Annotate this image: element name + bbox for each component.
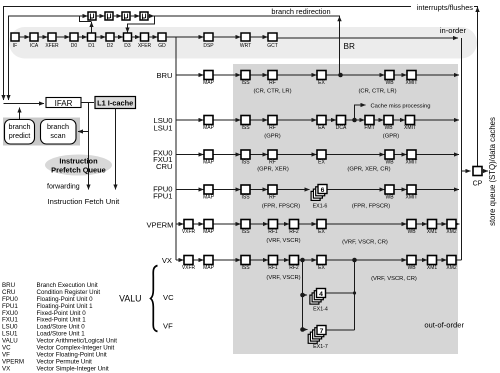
svg-text:scan: scan — [50, 131, 65, 140]
svg-text:Instruction: Instruction — [59, 157, 98, 166]
VALU grouping brace — [151, 266, 158, 332]
svg-text:VF: VF — [163, 322, 173, 331]
junction VC tap — [300, 293, 305, 298]
wire to cache miss processing — [355, 105, 366, 120]
wire into branch scan — [78, 131, 89, 133]
svg-text:Instruction Fetch Unit: Instruction Fetch Unit — [48, 197, 121, 206]
wire FPU — [394, 189, 407, 191]
svg-text:store queue (STQ)/data caches: store queue (STQ)/data caches — [488, 117, 497, 226]
svg-text:BRU: BRU — [156, 71, 172, 80]
wire EX1-7 result to merge bus — [326, 329, 355, 331]
wire FXU — [326, 154, 385, 156]
wire D3 to XFER — [132, 36, 141, 38]
pipeline stage GD — [158, 33, 166, 41]
wire merge bus for VC/VF results — [354, 260, 356, 330]
VPERM RF1 stage — [269, 220, 278, 229]
svg-text:FPU1: FPU1 — [2, 303, 18, 310]
pipeline stage D0 — [70, 33, 78, 41]
junction VX result merge — [352, 258, 357, 263]
wire EX1-4 result to merge bus — [326, 292, 355, 294]
svg-text:VXFR: VXFR — [182, 229, 196, 235]
branch predict box — [5, 120, 35, 145]
wire VPERM — [299, 223, 317, 225]
wire μ2 to μ3 — [113, 15, 122, 17]
in-order pipeline background (stadium) — [9, 27, 477, 59]
L1 I-cache box — [95, 97, 136, 109]
svg-text:predict: predict — [9, 131, 31, 140]
VX WB stage — [407, 256, 416, 265]
wire VX — [176, 259, 184, 261]
LSU DCA stage — [337, 116, 346, 125]
wire into IFAR — [4, 103, 45, 105]
branch unit container background — [3, 118, 80, 146]
wire BRU — [277, 74, 317, 76]
wire D0 to D1 — [78, 36, 87, 38]
FXU RF stage — [268, 150, 277, 159]
wire down from L1 I-cache — [115, 109, 117, 190]
junction VF tap — [300, 327, 305, 332]
svg-text:ISS: ISS — [241, 229, 250, 235]
LSU FMT stage — [365, 116, 374, 125]
svg-text:BR: BR — [344, 42, 355, 51]
svg-text:FPU1: FPU1 — [153, 191, 172, 200]
wire IF to ICA — [19, 36, 30, 38]
svg-text:Fixed-Point Unit 1: Fixed-Point Unit 1 — [37, 317, 87, 324]
wire LSU — [393, 119, 405, 121]
svg-text:(FPR, FPSCR): (FPR, FPSCR) — [262, 204, 300, 210]
VX ISS stage — [241, 256, 250, 265]
wire: interrupts/flushes feedback from CP to IFAR — [4, 7, 478, 167]
wire VX — [299, 259, 317, 261]
wire FPU — [327, 189, 385, 191]
svg-text:DSP: DSP — [203, 43, 214, 49]
pipeline stage D2 — [106, 33, 114, 41]
svg-text:MAP: MAP — [203, 125, 215, 131]
svg-text:XMIT: XMIT — [406, 195, 418, 201]
wire branch predict up to IFAR line — [19, 108, 21, 120]
wire XFER to D0 — [56, 36, 70, 38]
wire BRU — [176, 74, 204, 76]
pipeline stage ICA — [30, 33, 38, 41]
wire BRU — [326, 74, 385, 76]
VC execution stack EX1-4 — [310, 295, 319, 304]
wire VX — [326, 259, 407, 261]
pipeline stage XFER — [141, 33, 149, 41]
svg-text:RF: RF — [269, 195, 276, 201]
FPU XMIT stage — [407, 185, 416, 194]
wire: branch redirection feedback from BR to IFAR — [9, 16, 340, 100]
svg-text:XFER: XFER — [138, 43, 152, 49]
svg-text:VPERM: VPERM — [146, 220, 173, 229]
svg-text:WB: WB — [407, 229, 416, 235]
wire WRT to GCT — [250, 36, 268, 38]
svg-text:GD: GD — [158, 43, 166, 49]
wire LSU — [374, 119, 384, 121]
svg-text:(VRF, VSCR, CR): (VRF, VSCR, CR) — [371, 276, 417, 282]
IFAR box — [46, 98, 81, 108]
svg-text:ISS: ISS — [241, 265, 250, 271]
svg-text:WB: WB — [407, 265, 416, 271]
VX XM1 stage — [428, 256, 437, 265]
wire VPERM — [437, 223, 447, 225]
wire VX — [213, 259, 241, 261]
wire VPERM — [416, 223, 427, 225]
svg-text:XMIT: XMIT — [406, 160, 418, 166]
svg-text:RF: RF — [269, 160, 276, 166]
svg-text:(GPR): (GPR) — [383, 134, 399, 140]
svg-text:MAP: MAP — [203, 80, 215, 86]
FPU execution stack EX1-6 — [311, 191, 320, 200]
wire IFAR to L1 I-cache — [81, 102, 94, 104]
svg-text:EX1-4: EX1-4 — [313, 307, 328, 313]
pipeline stage IF — [11, 33, 19, 41]
svg-text:ICA: ICA — [30, 43, 39, 49]
out-of-order region background — [233, 64, 458, 354]
svg-text:XM1: XM1 — [427, 265, 438, 271]
junction merge — [353, 291, 356, 294]
VF execution stack EX1-7 — [308, 334, 317, 343]
svg-text:(VRF, VSCR): (VRF, VSCR) — [266, 275, 300, 281]
svg-text:ISS: ISS — [241, 160, 250, 166]
wire VX — [193, 259, 204, 261]
wire FPU — [176, 189, 204, 191]
svg-text:VALU: VALU — [119, 294, 141, 304]
LSU RF stage — [268, 116, 277, 125]
micro-op stage μ4 — [140, 12, 148, 20]
wire DSP to WRT — [213, 36, 241, 38]
svg-text:out-of-order: out-of-order — [424, 321, 464, 330]
svg-text:FXU1: FXU1 — [2, 317, 18, 324]
wire VX — [278, 259, 290, 261]
svg-text:VC: VC — [2, 345, 11, 352]
VPERM ISS stage — [241, 220, 250, 229]
wire LSU — [346, 119, 365, 121]
micro-op stage μ3 — [122, 12, 130, 20]
svg-text:VXFR: VXFR — [182, 265, 196, 271]
BRU EX stage — [317, 71, 326, 80]
svg-text:GCT: GCT — [267, 43, 278, 49]
wire FPU — [277, 189, 310, 191]
wire VPERM — [193, 223, 204, 225]
wire VPERM — [213, 223, 241, 225]
svg-text:D0: D0 — [71, 43, 78, 49]
svg-text:forwarding: forwarding — [47, 184, 80, 191]
wire XFER to GD — [149, 36, 158, 38]
svg-text:D2: D2 — [107, 43, 114, 49]
svg-text:IF: IF — [13, 43, 17, 49]
VX XM2 stage — [447, 256, 456, 265]
svg-text:EX: EX — [318, 80, 325, 86]
FPU ISS stage — [241, 185, 250, 194]
label interrupts/flushes — [411, 2, 474, 12]
wire FXU — [394, 154, 407, 156]
svg-text:XMIT: XMIT — [404, 125, 416, 131]
LSU ISS stage — [241, 116, 250, 125]
svg-text:EA: EA — [318, 125, 325, 131]
svg-text:branch redirection: branch redirection — [271, 7, 330, 16]
wire from μ4 down into D3 — [148, 15, 154, 17]
VX MAP stage — [204, 256, 213, 265]
wire LSU — [415, 119, 460, 121]
arrowhead up at top of BR line — [337, 16, 341, 21]
svg-text:VPERM: VPERM — [2, 358, 24, 365]
svg-text:Vector Complex-Integer Unit: Vector Complex-Integer Unit — [37, 345, 115, 352]
wire LSU — [176, 119, 204, 121]
VX RF1 stage — [269, 256, 278, 265]
pipeline stage XFER — [48, 33, 56, 41]
svg-text:RF1: RF1 — [268, 229, 278, 235]
svg-text:branch: branch — [47, 122, 69, 131]
pipeline stage WRT — [241, 33, 250, 41]
BRU ISS stage — [241, 71, 250, 80]
svg-text:Cache miss processing: Cache miss processing — [371, 103, 431, 109]
svg-text:Condition Register Unit: Condition Register Unit — [37, 289, 101, 296]
LSU WB stage — [384, 116, 393, 125]
wire μ1 to μ2 — [96, 15, 105, 17]
wire VPERM — [250, 223, 268, 225]
svg-text:LSU1: LSU1 — [2, 331, 18, 338]
svg-text:EX: EX — [318, 265, 325, 271]
svg-text:(CR, CTR, LR): (CR, CTR, LR) — [254, 89, 292, 95]
wire LSU — [250, 119, 268, 121]
wire μ3 to μ4 — [130, 15, 140, 17]
wire FPU — [416, 189, 459, 191]
svg-text:FMT: FMT — [364, 125, 374, 131]
wire BRU — [416, 74, 459, 76]
svg-text:ISS: ISS — [241, 125, 250, 131]
svg-text:WB: WB — [385, 80, 394, 86]
svg-text:XM1: XM1 — [427, 229, 438, 235]
svg-text:EX1-7: EX1-7 — [313, 344, 328, 350]
svg-text:interrupts/flushes: interrupts/flushes — [417, 3, 474, 12]
micro-op stage μ1 — [88, 12, 96, 20]
svg-text:(GPR, XER): (GPR, XER) — [257, 166, 289, 172]
svg-text:EX1-6: EX1-6 — [313, 204, 328, 210]
wire FPU — [250, 189, 268, 191]
wire: dispatch bus vertical — [175, 38, 177, 261]
wire into CP — [462, 170, 471, 172]
svg-text:MAP: MAP — [203, 195, 215, 201]
svg-text:Vector Simple-Integer Unit: Vector Simple-Integer Unit — [37, 365, 109, 372]
FXU WB stage — [385, 150, 394, 159]
BRU WB stage — [385, 71, 394, 80]
svg-text:VX: VX — [162, 256, 172, 265]
wire FXU — [213, 154, 241, 156]
svg-text:(GPR, XER, CR): (GPR, XER, CR) — [347, 166, 390, 172]
wire VX — [416, 259, 427, 261]
LSU XMIT stage — [406, 116, 415, 125]
svg-text:MAP: MAP — [203, 265, 215, 271]
VPERM RF2 stage — [290, 220, 299, 229]
BRU MAP stage — [204, 71, 213, 80]
pipeline stage DSP — [204, 33, 213, 41]
VX RF2 stage — [290, 256, 299, 265]
wire GCT to completion line (in-order) — [277, 37, 458, 39]
svg-text:CRU: CRU — [2, 289, 15, 296]
wire LSU — [326, 119, 336, 121]
svg-text:Load/Store Unit 1: Load/Store Unit 1 — [37, 331, 86, 338]
svg-text:WB: WB — [385, 160, 394, 166]
svg-text:Prefetch Queue: Prefetch Queue — [51, 166, 106, 175]
svg-text:MAP: MAP — [203, 160, 215, 166]
VX VXFR stage — [184, 256, 193, 265]
wire from D1 up to microcode row — [91, 22, 93, 33]
LSU MAP stage — [204, 116, 213, 125]
svg-text:RF2: RF2 — [289, 229, 299, 235]
svg-text:7: 7 — [320, 328, 324, 335]
pipeline stage D3 — [124, 33, 132, 41]
pipeline stage GCT — [268, 33, 277, 41]
svg-text:4: 4 — [319, 291, 323, 298]
svg-text:ISS: ISS — [241, 80, 250, 86]
svg-text:D3: D3 — [124, 43, 131, 49]
wire FXU — [176, 154, 204, 156]
wire into EX1-4 — [303, 294, 308, 296]
wire: completion bus vertical — [461, 38, 463, 260]
wire D2 to D3 — [114, 36, 123, 38]
wire FXU — [250, 154, 268, 156]
wire FPU — [213, 189, 241, 191]
svg-text:XM2: XM2 — [446, 265, 457, 271]
VPERM XM1 stage — [428, 220, 437, 229]
wire LSU — [277, 119, 317, 121]
svg-text:D1: D1 — [88, 43, 95, 49]
svg-text:(CR, CTR, LR): (CR, CTR, LR) — [359, 89, 397, 95]
FXU EX stage — [317, 150, 326, 159]
VPERM WB stage — [407, 220, 416, 229]
svg-text:EX: EX — [318, 160, 325, 166]
svg-text:Vector Permute Unit: Vector Permute Unit — [37, 358, 93, 365]
wire VPERM — [176, 223, 184, 225]
svg-text:CP: CP — [473, 181, 483, 188]
wire BRU — [213, 74, 241, 76]
micro-op stage μ2 — [105, 12, 113, 20]
svg-text:LSU1: LSU1 — [154, 123, 173, 132]
FPU MAP stage — [204, 185, 213, 194]
FXU XMIT stage — [407, 150, 416, 159]
wire BRU — [394, 74, 407, 76]
svg-text:XMIT: XMIT — [406, 80, 418, 86]
svg-text:(GPR): (GPR) — [264, 134, 280, 140]
svg-text:ISS: ISS — [241, 195, 250, 201]
junction VX to VC/VF split — [300, 258, 305, 263]
BRU XMIT stage — [407, 71, 416, 80]
wire into EX1-7 — [303, 329, 308, 331]
wire BRU — [250, 74, 268, 76]
svg-text:(VRF, VSCR, CR): (VRF, VSCR, CR) — [342, 240, 388, 246]
svg-text:RF2: RF2 — [289, 265, 299, 271]
svg-text:IFAR: IFAR — [55, 99, 73, 108]
wire ICA to XFER — [38, 36, 48, 38]
FXU MAP stage — [204, 150, 213, 159]
CP box — [473, 167, 482, 176]
LSU EA stage — [317, 116, 326, 125]
wire down to VC/VF units — [302, 260, 304, 330]
Instruction Prefetch Queue ellipse — [45, 155, 112, 176]
pipeline stage D1 — [88, 33, 96, 41]
svg-text:MAP: MAP — [203, 229, 215, 235]
wire down from IFAR/L1 line through prefetch queue — [88, 103, 90, 190]
svg-text:(FPR, FPSCR): (FPR, FPSCR) — [352, 204, 390, 210]
svg-text:RF: RF — [269, 125, 276, 131]
svg-text:VX: VX — [2, 365, 10, 372]
svg-text:XFER: XFER — [45, 43, 59, 49]
svg-text:EX: EX — [318, 229, 325, 235]
VX EX stage — [317, 256, 326, 265]
wire LSU — [213, 119, 241, 121]
svg-text:RF: RF — [269, 80, 276, 86]
wire FXU — [277, 154, 317, 156]
svg-text:WB: WB — [384, 125, 393, 131]
svg-text:Floating-Point Unit 1: Floating-Point Unit 1 — [37, 303, 94, 310]
FPU WB stage — [385, 185, 394, 194]
svg-text:in-order: in-order — [440, 26, 467, 35]
BRU RF stage — [268, 71, 277, 80]
junction cache miss tap — [352, 118, 357, 123]
svg-text:WB: WB — [385, 195, 394, 201]
wire VPERM — [278, 223, 290, 225]
svg-text:6: 6 — [321, 187, 325, 194]
svg-text:RF1: RF1 — [268, 265, 278, 271]
svg-text:L1 I-cache: L1 I-cache — [97, 98, 133, 107]
svg-text:VC: VC — [163, 293, 174, 302]
branch scan box — [41, 120, 77, 145]
wire out of CP to store queue — [482, 170, 488, 172]
wire VX — [437, 259, 447, 261]
wire VPERM — [326, 223, 407, 225]
wire FXU — [416, 154, 459, 156]
FXU ISS stage — [241, 150, 250, 159]
wire GD to DSP — [166, 36, 204, 38]
wire VX XM2 to completion line — [456, 259, 462, 261]
VPERM XM2 stage — [447, 220, 456, 229]
svg-text:branch: branch — [9, 122, 31, 131]
VPERM MAP stage — [204, 220, 213, 229]
junction BR redirect tap — [338, 73, 343, 78]
wire VPERM — [456, 223, 460, 225]
FPU RF stage — [268, 185, 277, 194]
svg-text:(VRF, VSCR): (VRF, VSCR) — [266, 238, 300, 244]
VPERM VXFR stage — [184, 220, 193, 229]
VPERM EX stage — [317, 220, 326, 229]
svg-text:WRT: WRT — [240, 43, 251, 49]
svg-text:DCA: DCA — [336, 125, 347, 131]
wire VX — [250, 259, 268, 261]
arrowhead up at top of CP line — [475, 7, 479, 12]
wire D1 to D2 — [96, 36, 106, 38]
svg-text:XM2: XM2 — [446, 229, 457, 235]
svg-text:CRU: CRU — [156, 162, 172, 171]
